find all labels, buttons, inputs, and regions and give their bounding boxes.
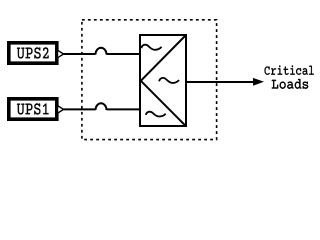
AC sine symbol (input 1, bottom) <box>146 112 166 117</box>
breaker CB1 (arc in UPS1 wire) <box>96 103 107 110</box>
AC sine symbol (output, middle) <box>159 78 179 83</box>
UPS2 box <box>9 43 57 63</box>
wire UPS2 to switch <box>64 53 96 55</box>
label Critical <box>265 65 314 74</box>
UPS2 output connector triangle <box>58 50 64 58</box>
switch pole diagonal to bottom-right <box>141 81 185 125</box>
output wire to critical loads <box>186 81 254 83</box>
wire UPS1 to switch <box>64 108 96 110</box>
label Loads <box>272 79 308 89</box>
wire breaker to switch block <box>107 108 141 110</box>
UPS1 output connector triangle <box>58 106 64 114</box>
UPS1 box <box>9 99 57 119</box>
wire breaker to switch block <box>107 53 141 55</box>
breaker CB2 (arc in UPS2 wire) <box>96 48 107 55</box>
switch pole diagonal to top-right <box>141 36 185 81</box>
AC sine symbol (input 2, top) <box>141 45 161 50</box>
static transfer switch block <box>140 35 186 126</box>
dashed enclosure (static transfer switch cabinet) <box>82 20 217 140</box>
output arrowhead <box>253 78 264 86</box>
